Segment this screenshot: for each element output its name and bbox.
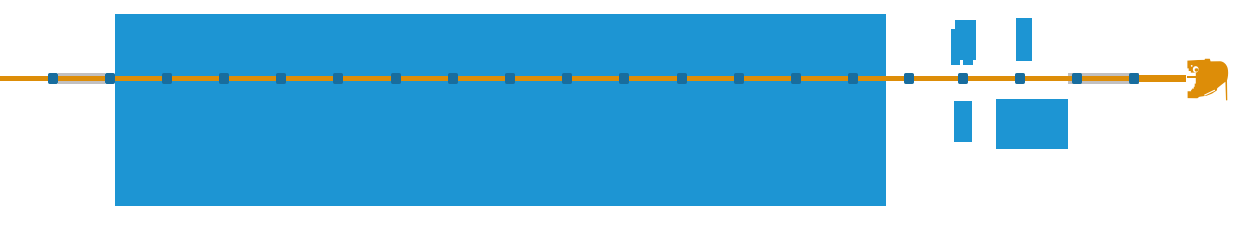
drift tube right (gray)	[1068, 73, 1139, 84]
BPM square 4	[219, 73, 229, 84]
arrow tail (thicker orange segment)	[1139, 75, 1186, 82]
white comma hole inside arrow	[1193, 66, 1199, 72]
linac block (large light blue rectangle)	[115, 14, 886, 206]
BPM square 17	[958, 73, 968, 84]
magnet M1 left column (stepped element above line)	[951, 29, 960, 66]
BPM square 7	[391, 73, 401, 84]
BPM square 19	[1072, 73, 1082, 84]
drift tube left (gray)	[58, 73, 104, 84]
BPM square 14	[791, 73, 801, 84]
BPM square 15	[848, 73, 858, 84]
BPM square 20	[1129, 73, 1139, 84]
BPM square 8	[448, 73, 458, 84]
magnet M4 (wide rectangle below line)	[996, 99, 1068, 148]
magnet M1 main body	[955, 20, 976, 59]
BPM square 1	[48, 73, 58, 84]
BPM square 12	[677, 73, 687, 84]
magnet M2 (rectangle above line)	[1016, 18, 1032, 60]
magnet M1 right leg	[963, 60, 973, 66]
arrow head (orange blob at right end of beam axis)	[1180, 54, 1241, 106]
white diagonal slit at arrow bottom	[1204, 90, 1215, 95]
BPM square 6	[333, 73, 343, 84]
BPM square 5	[276, 73, 286, 84]
arrow tail thin tip band	[1187, 76, 1197, 78]
BPM square 3	[162, 73, 172, 84]
BPM square 11	[619, 73, 629, 84]
BPM square 10	[562, 73, 572, 84]
BPM square 16	[904, 73, 914, 84]
BPM square 2	[105, 73, 115, 84]
BPM square 18	[1015, 73, 1025, 84]
BPM square 9	[505, 73, 515, 84]
BPM square 13	[734, 73, 744, 84]
beam axis (orange line)	[0, 76, 1145, 81]
magnet M3 (small rectangle below line)	[954, 101, 972, 142]
